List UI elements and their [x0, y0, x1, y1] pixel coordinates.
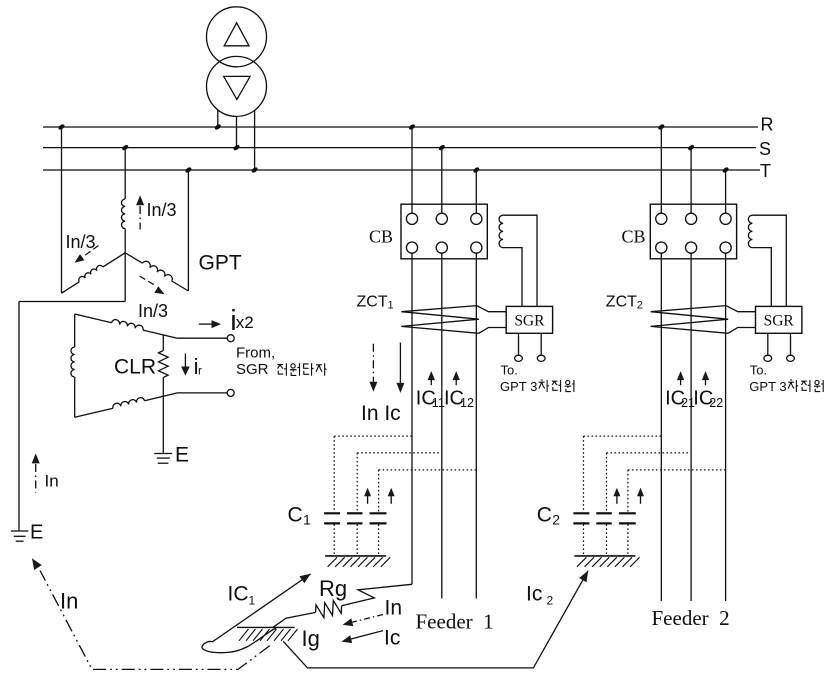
svg-text:Feeder 1: Feeder 1 [416, 610, 494, 634]
ZCT1 core lower [401, 319, 478, 326]
junction feeder2-R [657, 123, 665, 130]
junction GPT-R [58, 123, 66, 130]
CB2 contact top 1 [656, 213, 667, 224]
CB2 contact top 2 [686, 213, 697, 224]
wire GPT neutral horizontal [19, 301, 125, 303]
svg-text:In Ic: In Ic [361, 402, 401, 425]
arrow IC21 (up) [677, 371, 684, 380]
CB2 contact bottom 3 [720, 242, 731, 253]
CB1 trip coil [499, 215, 503, 247]
wire feeder2 phase R down [660, 253, 662, 601]
svg-text:1: 1 [303, 512, 311, 528]
wire feeder1 phase S to CB [441, 148, 443, 214]
CB2 contact bottom 1 [656, 242, 667, 253]
svg-text:In: In [45, 472, 59, 491]
dotted tap phase R [334, 435, 412, 437]
wire SGR2 output 1 [767, 333, 769, 355]
svg-text:1: 1 [388, 300, 394, 312]
svg-text:To.: To. [750, 363, 767, 378]
CB1 contact bottom 2 [436, 242, 447, 253]
wire GPT neutral to earth [18, 302, 20, 531]
circuit breaker CB2 box [650, 204, 736, 259]
path IC1 (ground loop to C1) [202, 574, 310, 653]
svg-text:ZCT: ZCT [606, 294, 637, 311]
svg-text:2: 2 [547, 594, 554, 608]
wire feeder2 phase S down [690, 253, 692, 601]
GPT winding (right) [142, 261, 172, 281]
wire GPT phase S drop [124, 148, 126, 199]
arrow cap current 2 (up) [388, 488, 395, 497]
CB1 contact bottom 3 [471, 242, 482, 253]
CLR primary winding (left) [74, 314, 76, 347]
terminal SGR2 2 [787, 355, 795, 361]
svg-text:GPT 3: GPT 3 [500, 379, 537, 394]
svg-text:In/3: In/3 [138, 301, 168, 321]
junction feeder1-T [472, 166, 480, 173]
CB2 trip coil [748, 215, 752, 247]
svg-text:x2: x2 [236, 313, 254, 332]
capacitor C1 phase S [347, 512, 363, 514]
wire CLR top output [177, 337, 227, 339]
wire left winding end [62, 282, 80, 293]
bus R [43, 126, 758, 128]
svg-text:In/3: In/3 [147, 200, 177, 220]
capacitor C1 phase T [370, 512, 387, 514]
svg-text:22: 22 [709, 396, 723, 410]
wire SGR1 output 2 [540, 333, 542, 355]
svg-text:To.: To. [501, 363, 518, 378]
terminal SGR1 1 [515, 355, 523, 361]
transformer T (delta winding circle) [207, 7, 267, 67]
earth hatch Ig [237, 626, 295, 628]
svg-text:r: r [198, 363, 202, 377]
wire star to left winding [103, 253, 125, 267]
relay SGR1 box [506, 306, 552, 333]
ground E (CLR) [154, 453, 172, 455]
dotted tap phase T [628, 469, 726, 471]
arrow IC22 (up) [702, 371, 709, 380]
path IC2 (ground to C2) [283, 571, 588, 668]
dotted tap phase S [357, 452, 442, 454]
arrow Ic (down, feeder 1) [399, 343, 401, 384]
GPT winding (top, phase S) [121, 199, 125, 229]
svg-text:CB: CB [369, 227, 393, 247]
svg-text:C: C [288, 504, 303, 527]
transformer T (wye winding circle) [207, 56, 267, 116]
svg-text:Feeder 2: Feeder 2 [652, 606, 730, 630]
wire coil top to SGR1 [503, 215, 537, 306]
junction feeder2-S [687, 144, 695, 151]
wire feeder1 phase R to CB [411, 127, 413, 213]
wire GPT phase R drop [61, 127, 63, 293]
svg-text:GPT: GPT [199, 252, 242, 275]
wire GPT phase T drop [187, 170, 189, 291]
bus S [43, 147, 756, 149]
resistor Rg [316, 601, 342, 618]
svg-text:SGR: SGR [764, 312, 795, 329]
svg-text:Ic: Ic [384, 627, 400, 650]
wire feeder1 phase T to CB [475, 170, 477, 213]
terminal SGR1 2 [537, 355, 545, 361]
arrow cap current 1 (up) [364, 488, 371, 497]
arrow IC11 (up) [428, 371, 435, 380]
capacitor C2 phase S [596, 512, 612, 514]
arrow In (down, dash-dot, feeder 1) [372, 344, 374, 383]
svg-text:E: E [175, 444, 189, 467]
wire feeder2 phase T to CB [725, 170, 727, 213]
GPT winding (left) [79, 265, 103, 281]
capacitor C2 phase T [619, 512, 636, 514]
label 전원단자 (hangul) [277, 363, 286, 376]
relay SGR2 box [756, 306, 802, 333]
junction feeder1-S [438, 144, 446, 151]
arrow In (left, dash-dot, at Rg) [351, 615, 383, 623]
wire CLR bottom output [177, 392, 227, 394]
CLR top edge winding [75, 314, 112, 323]
arrow In/3 (up, phase S) [136, 195, 144, 205]
svg-text:SGR: SGR [514, 312, 545, 329]
svg-text:2: 2 [637, 300, 643, 312]
arrow ir (down) [184, 354, 186, 367]
svg-text:IC: IC [228, 583, 249, 606]
earth hatch under C1 [325, 555, 386, 557]
junction GPT-T [184, 166, 192, 173]
ZCT1 core upper [401, 306, 476, 312]
svg-text:11: 11 [432, 396, 445, 410]
svg-text:12: 12 [460, 396, 474, 410]
svg-text:1: 1 [249, 594, 256, 608]
svg-text:From,: From, [236, 345, 275, 362]
dotted tap phase S [607, 452, 692, 454]
dotted tap phase T [379, 469, 477, 471]
svg-text:E: E [30, 522, 43, 544]
CB2 contact top 3 [720, 213, 731, 224]
wire SGR2 output 2 [790, 333, 792, 355]
svg-text:Ic: Ic [526, 583, 542, 606]
svg-text:T: T [760, 161, 771, 181]
ZCT2 core upper [651, 306, 726, 312]
junction transformer-R [214, 123, 222, 130]
bus T [43, 169, 760, 171]
arrow In/3 (right winding) [140, 276, 156, 286]
junction feeder2-T [722, 166, 730, 173]
svg-text:SGR: SGR [236, 361, 269, 378]
CB1 contact top 2 [436, 213, 447, 224]
dotted cap leads to ground [333, 524, 335, 555]
resistor (CLR tap) [162, 335, 164, 351]
capacitor C2 phase R [573, 512, 589, 514]
arrow Ic (left, at Rg) [351, 631, 383, 639]
arrow IC12 (up) [453, 371, 460, 380]
wire transformer leg S [236, 116, 238, 147]
CB2 contact bottom 2 [686, 242, 697, 253]
svg-text:Rg: Rg [319, 576, 347, 601]
svg-text:Ig: Ig [302, 626, 320, 651]
svg-text:CLR: CLR [114, 356, 156, 379]
wire feeder1 to Rg [342, 584, 412, 606]
arrow cap current 2 (up) [637, 488, 644, 497]
wire GPT S to star point [124, 229, 126, 253]
terminal (bottom) [227, 389, 234, 396]
wire coil bottom to SGR1 [503, 248, 522, 307]
wire feeder2 phase R to CB [660, 127, 662, 213]
wire feeder1 phase R down [411, 253, 413, 584]
wire transformer leg T [254, 110, 256, 170]
terminal (top) [227, 335, 234, 342]
arrow In (up, at ground lead) [32, 453, 40, 463]
CB1 contact top 1 [406, 213, 417, 224]
capacitor C1 phase R [324, 512, 340, 514]
svg-text:C: C [537, 504, 552, 527]
svg-text:CB: CB [622, 227, 646, 247]
arrow In/3 (left winding) [84, 246, 99, 257]
wire coil top to SGR2 [752, 215, 786, 306]
terminal SGR2 1 [764, 355, 772, 361]
svg-text:In/3: In/3 [66, 232, 96, 252]
wire transformer leg R [217, 110, 219, 127]
wire coil bottom to SGR2 [752, 248, 771, 307]
junction feeder1-R [408, 123, 416, 130]
junction transformer-T [251, 166, 259, 173]
junction GPT-S [121, 144, 129, 151]
wire right winding end [172, 281, 189, 291]
earth hatch under C2 [574, 555, 635, 557]
ground E (GPT neutral) [11, 530, 28, 532]
arrow cap current 1 (up) [613, 488, 620, 497]
wire feeder2 phase T down [725, 253, 727, 601]
wire GPT neutral down [124, 253, 126, 302]
circuit breaker CB1 box [401, 204, 487, 259]
svg-text:S: S [759, 139, 771, 159]
path In return (dash-dot to E) [40, 571, 270, 670]
svg-text:ZCT: ZCT [357, 294, 388, 311]
wire feeder2 phase S to CB [690, 148, 692, 214]
wire Rg to ground [273, 612, 316, 627]
junction transformer-S [233, 144, 241, 151]
ZCT2 core lower [651, 319, 728, 326]
svg-text:In: In [385, 597, 403, 620]
CB1 contact bottom 1 [406, 242, 417, 253]
svg-text:GPT 3: GPT 3 [749, 379, 786, 394]
svg-text:In: In [60, 589, 78, 614]
dotted cap leads to ground [583, 524, 585, 555]
CLR bottom edge winding [75, 408, 113, 417]
svg-text:R: R [761, 115, 774, 135]
CB1 contact top 3 [471, 213, 482, 224]
wire feeder1 phase T down [475, 253, 477, 598]
wire SGR1 output 1 [518, 333, 520, 355]
wire feeder1 phase S down [441, 253, 443, 598]
wire star to right winding [125, 253, 142, 263]
dotted tap phase R [584, 435, 662, 437]
arrow ix2 (right) [199, 323, 212, 325]
svg-text:2: 2 [552, 512, 560, 528]
